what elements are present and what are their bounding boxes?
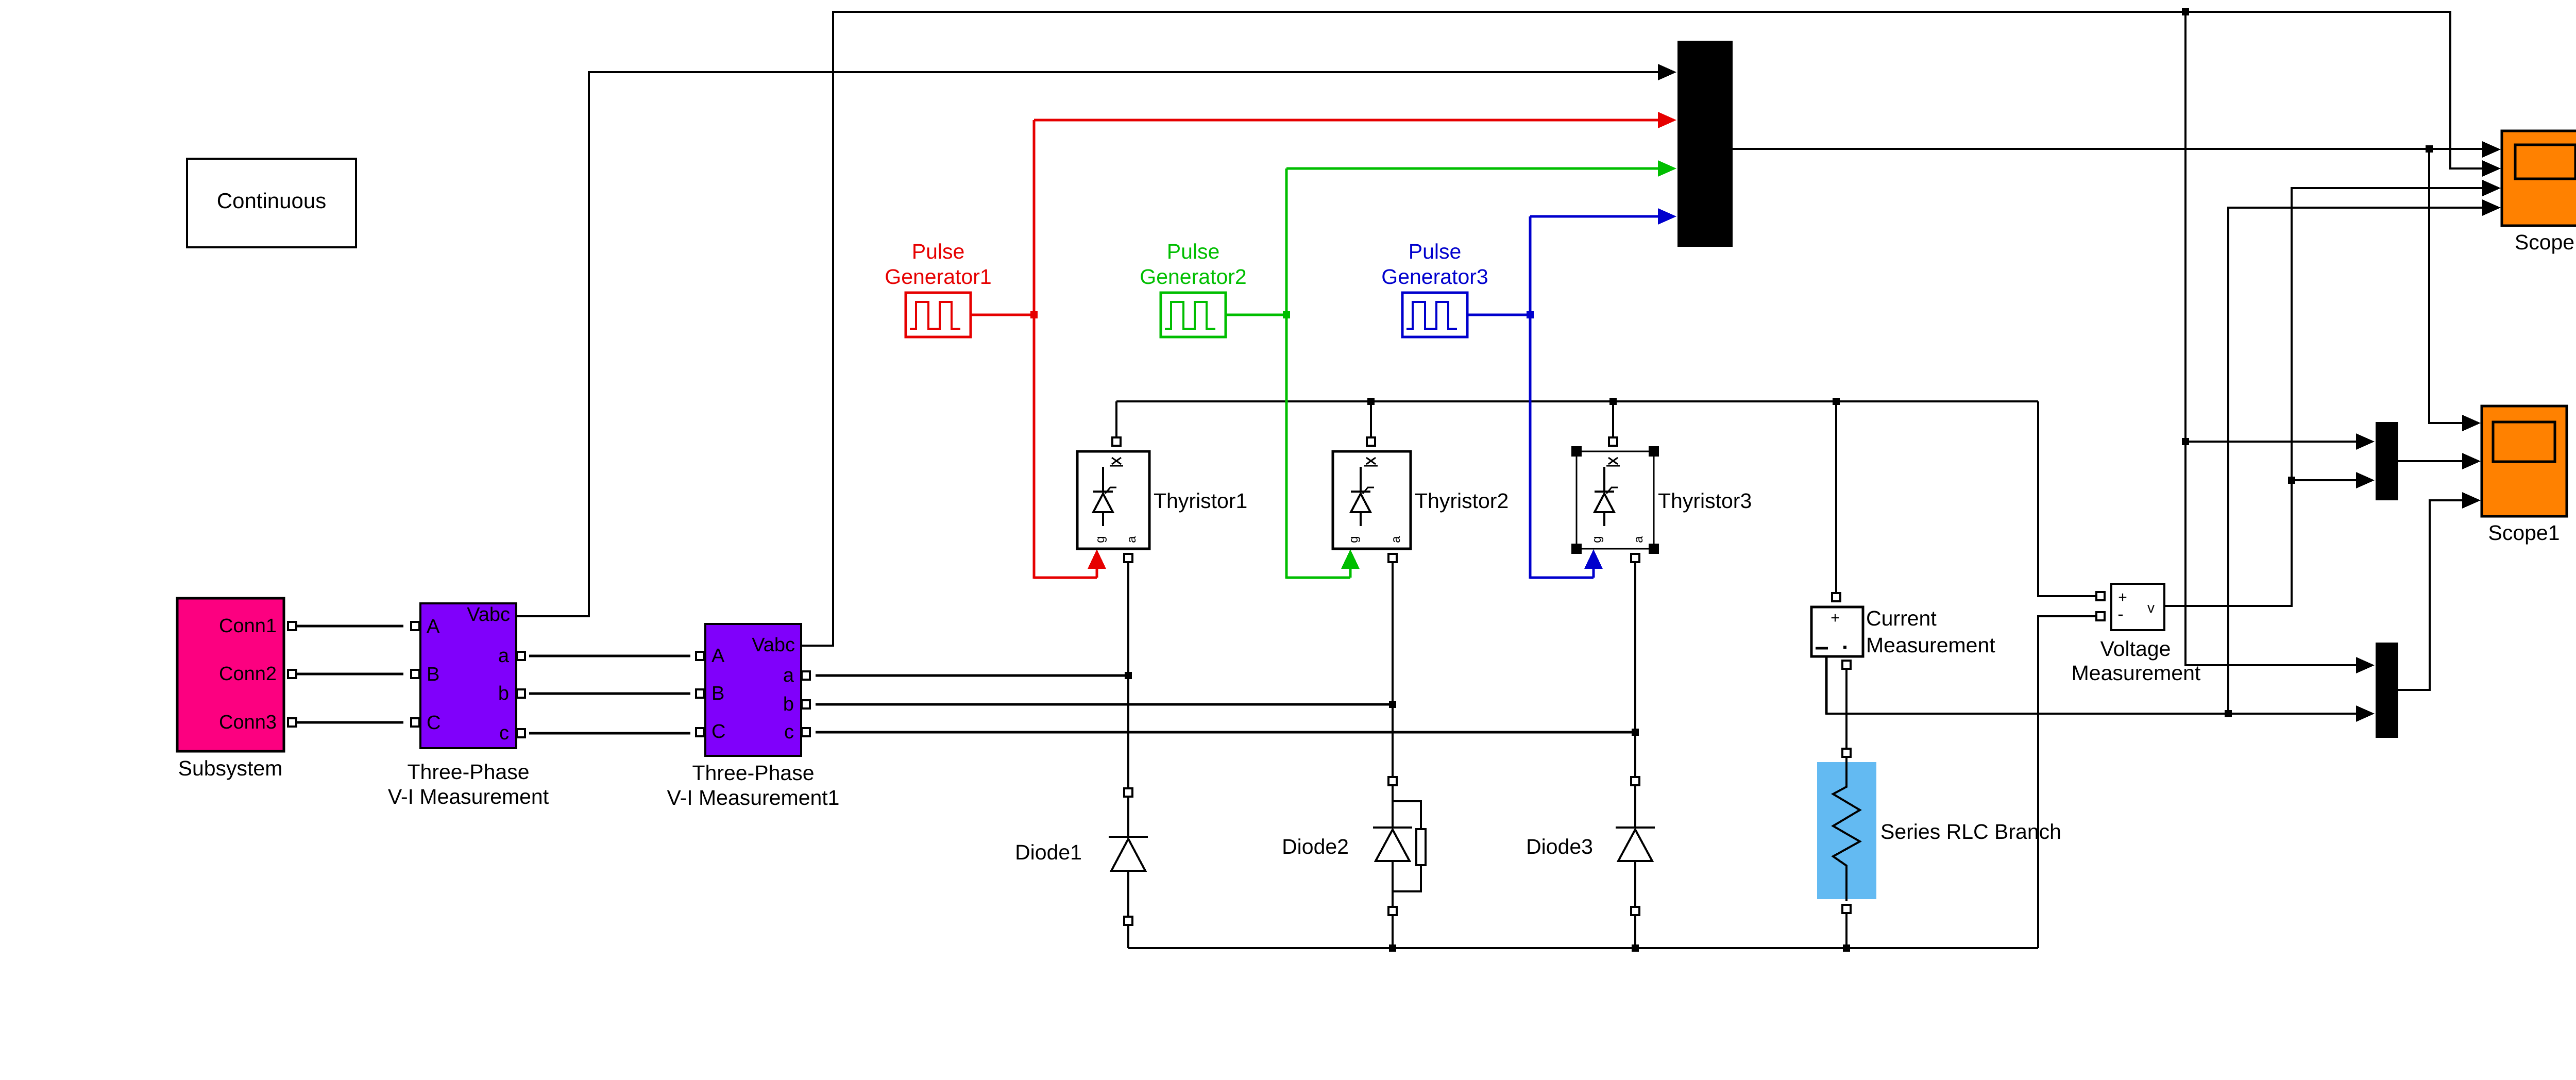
svg-text:Voltage: Voltage [2100,637,2171,661]
svg-text:+: + [1831,610,1840,627]
svg-text:A: A [427,616,440,637]
svg-text:-: - [2117,604,2123,624]
svg-text:g: g [1590,536,1604,543]
svg-text:Diode1: Diode1 [1015,840,1082,864]
svg-text:Three-Phase: Three-Phase [692,761,814,785]
svg-text:a: a [498,645,510,667]
svg-text:V-I Measurement: V-I Measurement [388,785,549,808]
svg-text:Current: Current [1866,606,1937,630]
svg-text:Three-Phase: Three-Phase [407,760,529,784]
svg-text:v: v [2147,600,2155,616]
svg-text:Thyristor1: Thyristor1 [1154,489,1247,513]
svg-text:a: a [1389,536,1403,543]
svg-text:c: c [784,721,794,743]
svg-text:a: a [783,665,794,686]
svg-text:b: b [498,683,509,704]
svg-text:Diode2: Diode2 [1282,835,1349,858]
svg-text:Measurement: Measurement [1866,633,1995,657]
svg-text:Scope1: Scope1 [2488,521,2560,545]
svg-text:Pulse: Pulse [1167,240,1220,263]
svg-text:b: b [783,694,794,715]
svg-text:g: g [1347,536,1361,543]
svg-text:C: C [711,721,725,742]
svg-text:Conn3: Conn3 [219,712,277,733]
svg-text:Generator3: Generator3 [1381,265,1488,289]
svg-text:Thyristor3: Thyristor3 [1658,489,1752,513]
svg-text:Pulse: Pulse [1409,240,1462,263]
svg-text:+: + [2118,589,2127,606]
svg-text:Vabc: Vabc [752,634,795,656]
svg-text:C: C [427,712,440,734]
svg-text:B: B [427,664,439,685]
svg-text:c: c [499,722,509,744]
svg-text:Pulse: Pulse [912,240,965,263]
svg-text:Thyristor2: Thyristor2 [1415,489,1509,513]
svg-text:Scope: Scope [2515,230,2574,254]
svg-text:V-I Measurement1: V-I Measurement1 [667,786,840,809]
svg-text:Generator1: Generator1 [885,265,991,289]
svg-text:g: g [1093,536,1107,543]
svg-text:Vabc: Vabc [467,604,510,626]
svg-text:Subsystem: Subsystem [178,756,283,780]
svg-text:a: a [1125,536,1139,543]
svg-text:Continuous: Continuous [217,189,326,213]
svg-text:B: B [711,683,724,704]
svg-text:Diode3: Diode3 [1526,835,1593,858]
svg-text:a: a [1632,536,1646,543]
svg-text:Generator2: Generator2 [1140,265,1246,289]
svg-text:Conn1: Conn1 [219,615,277,637]
svg-text:A: A [711,645,725,667]
svg-text:Series RLC Branch: Series RLC Branch [1880,820,2061,843]
svg-text:Conn2: Conn2 [219,663,277,685]
svg-text:Measurement: Measurement [2072,661,2201,685]
